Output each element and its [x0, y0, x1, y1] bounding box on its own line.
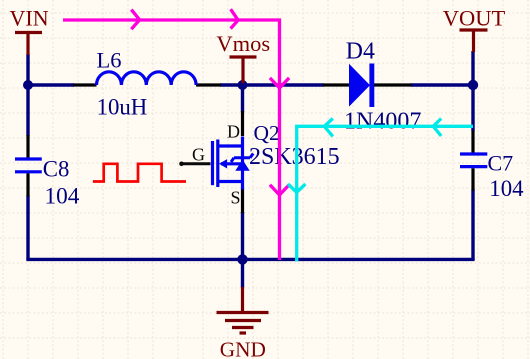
net label text: Vmos	[216, 31, 270, 56]
designator label: C8	[43, 157, 70, 182]
capacitor C7	[460, 154, 487, 167]
svg-text:L6: L6	[97, 48, 122, 73]
pin: Q2 gate pin	[179, 162, 210, 167]
wire: bottom rail junction down to GND symbol	[241, 259, 244, 287]
svg-text:1N4007: 1N4007	[344, 108, 421, 134]
svg-text:104: 104	[45, 183, 80, 209]
svg-text:2SK3615: 2SK3615	[249, 144, 340, 170]
junction dot: ground rail node	[237, 254, 247, 264]
power port VOUT	[460, 30, 488, 52]
svg-text:G: G	[192, 144, 205, 164]
svg-text:10uH: 10uH	[97, 95, 148, 120]
pin: L6 pin 2	[196, 83, 221, 86]
pin: Q2 source pin	[241, 189, 244, 214]
designator label: L6	[97, 48, 122, 73]
designator label: D4	[346, 38, 375, 64]
svg-text:D4: D4	[346, 38, 375, 64]
wire: bottom rail (ground rail)	[26, 258, 474, 261]
svg-text:104: 104	[489, 176, 524, 201]
svg-text:Vmos: Vmos	[216, 31, 270, 56]
value label: L6 10uH	[97, 95, 148, 120]
svg-text:Q2: Q2	[254, 121, 280, 145]
svg-text:S: S	[231, 188, 241, 208]
power port Vmos	[230, 57, 257, 83]
pin: C8 pin 1 (top)	[26, 135, 29, 158]
svg-text:C7: C7	[488, 150, 514, 175]
wire: top rail left (VIN junction to L6 pin 1)	[26, 83, 74, 86]
red gate-drive square waveform	[93, 164, 186, 182]
wire: VOUT vertical down to C7 pin	[471, 51, 474, 131]
magenta current-flow arrow (VIN to switch node, down to ground)	[63, 9, 289, 260]
wire: top rail right (D4 pin 2 to VOUT junction)	[411, 83, 475, 86]
svg-text:C8: C8	[43, 157, 70, 182]
designator label: Q2	[254, 121, 280, 145]
svg-text:GND: GND	[220, 338, 266, 359]
pin label: S (source)	[231, 188, 241, 208]
value label: D4 1N4007	[344, 108, 421, 134]
svg-text:D: D	[227, 122, 240, 142]
ground symbol GND	[217, 287, 269, 333]
junction dot: Vmos node	[238, 80, 248, 90]
junction dot: VOUT node	[468, 80, 478, 90]
svg-text:VIN: VIN	[10, 6, 49, 31]
pin: D4 pin 1 (anode)	[323, 83, 350, 86]
net label text: GND	[220, 338, 266, 359]
wire: top rail middle (L6 pin 2 through Vmos junction to D4 pin 1)	[220, 83, 324, 86]
capacitor C8	[15, 159, 42, 172]
wire: C7 bottom pin down to bottom rail	[471, 190, 474, 261]
power port VIN	[15, 33, 42, 56]
pin: D4 pin 2 (cathode)	[374, 83, 412, 86]
transistor Q2 (N-MOSFET 2SK3615)	[213, 137, 254, 190]
net label text: VOUT	[443, 5, 506, 30]
svg-text:VOUT: VOUT	[443, 5, 506, 30]
inductor L6	[97, 72, 197, 85]
pin: C7 pin 2 (bottom)	[471, 168, 474, 190]
wire: VIN vertical down to C8 pin	[26, 54, 29, 136]
value label: C8 104	[45, 183, 80, 209]
wire: Q2 source down to bottom rail	[241, 212, 244, 259]
designator label: C7	[488, 150, 514, 175]
diode D4	[349, 64, 374, 108]
pin: C8 pin 2 (bottom)	[26, 173, 29, 196]
wire: C8 bottom pin down to bottom rail	[26, 196, 29, 261]
cyan current-flow arrow (VOUT back through to ground)	[288, 119, 473, 262]
junction dot: VIN node	[23, 80, 33, 90]
wire: Q2 drain to Vmos junction	[241, 86, 244, 112]
pin label: G (gate)	[192, 144, 205, 164]
value label: Q2 2SK3615	[249, 144, 340, 170]
pin: L6 pin 1	[73, 83, 97, 86]
pin label: D (drain)	[227, 122, 240, 142]
pin: C7 pin 1 (top)	[471, 131, 474, 153]
pin: Q2 drain pin	[241, 111, 244, 136]
value label: C7 104	[489, 176, 524, 201]
net label text: VIN	[10, 6, 49, 31]
